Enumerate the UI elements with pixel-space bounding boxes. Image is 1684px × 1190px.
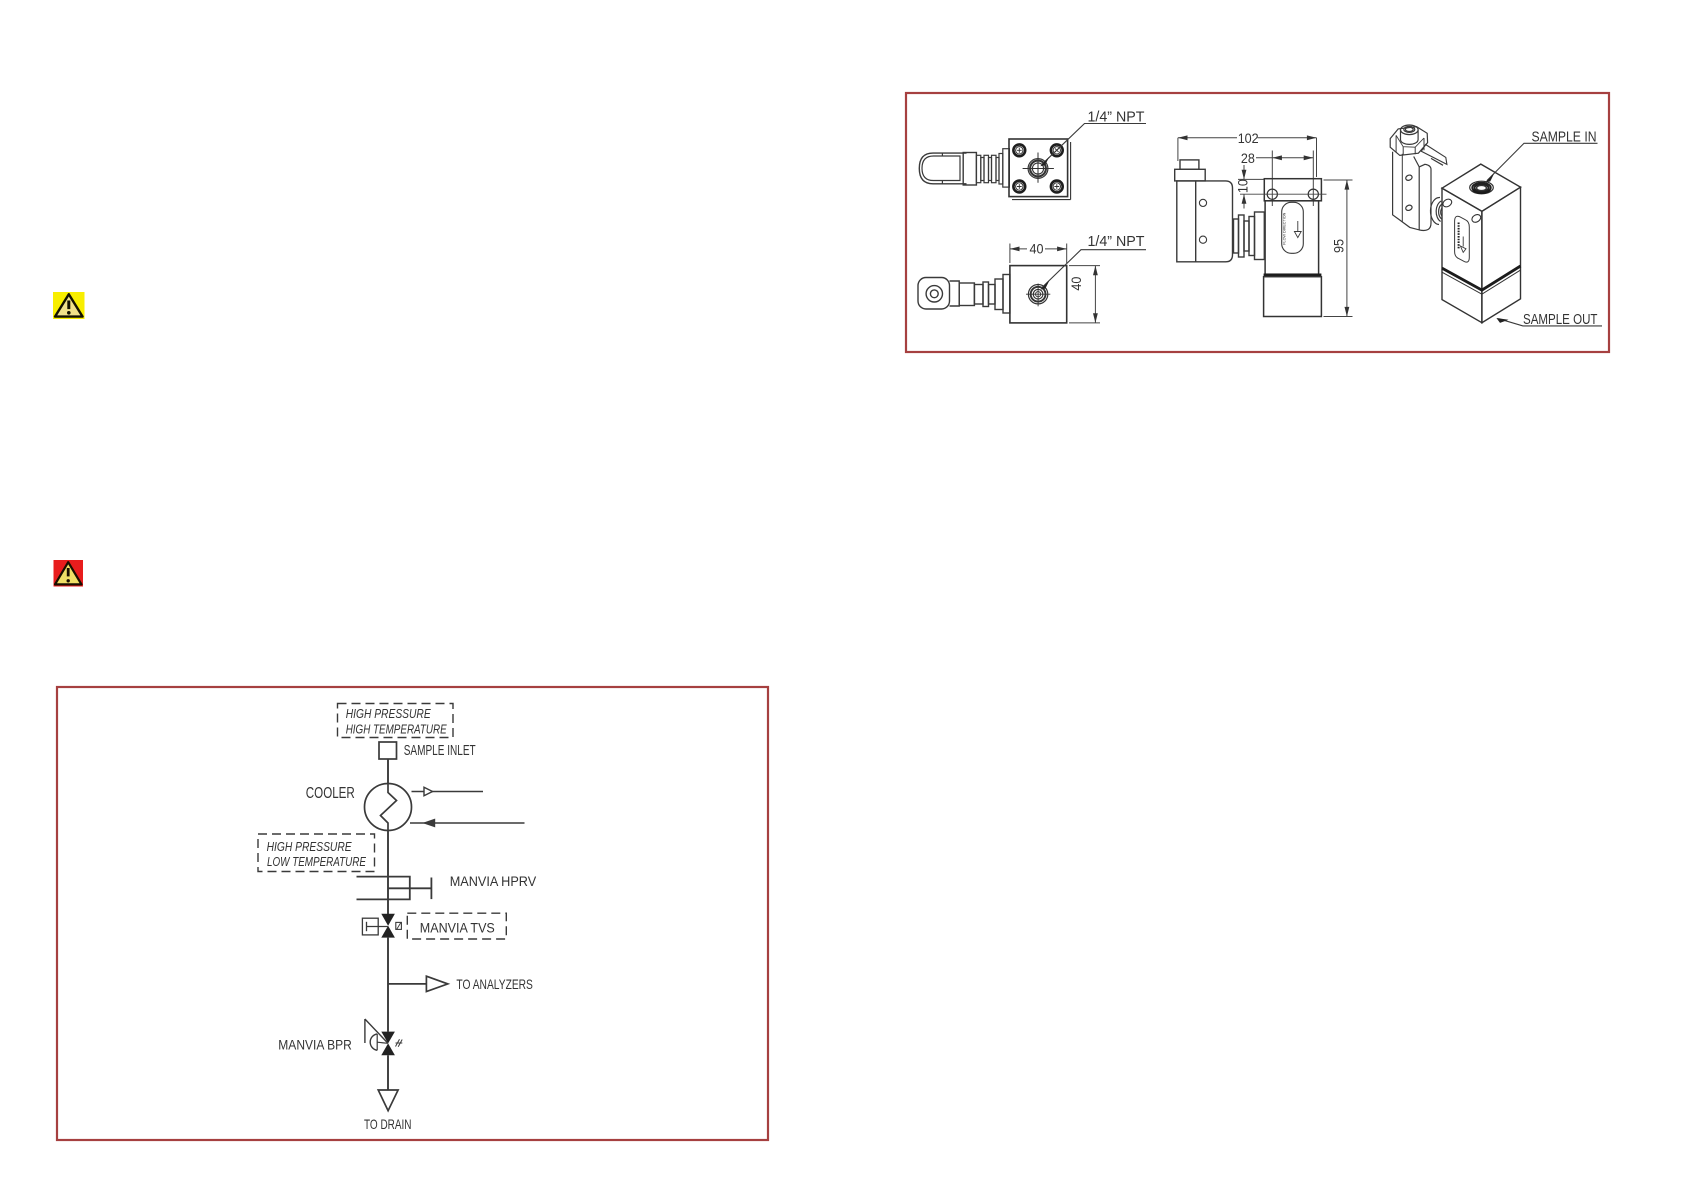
node: sample inlet port bbox=[379, 742, 476, 759]
flow direction label plate (C) bbox=[1282, 202, 1304, 253]
svg-text:95: 95 bbox=[1331, 239, 1346, 253]
branch to analyzers bbox=[388, 976, 448, 991]
wire: cooler to HPRV bbox=[387, 831, 389, 900]
svg-text:FLOW DIRECTION: FLOW DIRECTION bbox=[1282, 213, 1287, 245]
svg-text:1/4” NPT: 1/4” NPT bbox=[1088, 110, 1145, 126]
flange screws A bbox=[1013, 144, 1062, 192]
svg-text:COOLER: COOLER bbox=[306, 785, 355, 802]
center port A bbox=[1023, 153, 1054, 183]
iso front-face holes D bbox=[1441, 198, 1482, 224]
actuator side view (C) bbox=[1175, 160, 1265, 262]
handle grip B bbox=[918, 275, 1010, 314]
leader + label SAMPLE OUT bbox=[1496, 312, 1602, 328]
bottom flow-diagram panel border bbox=[57, 687, 768, 1140]
svg-text:10: 10 bbox=[1236, 179, 1251, 193]
svg-text:LOW TEMPERATURE: LOW TEMPERATURE bbox=[267, 854, 366, 869]
svg-text:HIGH PRESSURE: HIGH PRESSURE bbox=[267, 839, 352, 854]
iso label plate D bbox=[1455, 216, 1470, 262]
svg-text:SAMPLE INLET: SAMPLE INLET bbox=[404, 742, 476, 759]
node: high pressure low temperature label box bbox=[258, 834, 375, 872]
svg-text:40: 40 bbox=[1069, 277, 1084, 291]
valve MANVIA TVS (toggle valve, bowtie) bbox=[362, 914, 401, 938]
valve MANVIA HPRV (pressure reducing) bbox=[357, 877, 432, 900]
iso top port D bbox=[1470, 181, 1494, 194]
svg-text:MANVIA BPR: MANVIA BPR bbox=[278, 1037, 352, 1053]
warning icon W2 (red danger) bbox=[54, 560, 84, 587]
wire: TVS to branch bbox=[387, 938, 389, 1032]
body square B bbox=[1010, 266, 1067, 323]
leader + label 1/4 NPT (A) bbox=[1040, 110, 1146, 167]
drain arrow bbox=[378, 1090, 398, 1111]
warning icon W1 (yellow caution) bbox=[53, 292, 85, 319]
cooling water out arrow (top) bbox=[412, 787, 484, 795]
valve MANVIA BPR (back pressure regulator) bbox=[365, 1019, 402, 1055]
svg-text:HIGH TEMPERATURE: HIGH TEMPERATURE bbox=[346, 721, 447, 736]
svg-text:28: 28 bbox=[1241, 151, 1255, 166]
iso block D bbox=[1442, 164, 1521, 323]
center port B bbox=[1026, 284, 1050, 307]
dimension 40 vertical (B) bbox=[1069, 266, 1100, 323]
svg-text:TO DRAIN: TO DRAIN bbox=[364, 1116, 412, 1132]
node: MANVIA TVS label box bbox=[407, 913, 506, 939]
top drawing panel border bbox=[906, 93, 1609, 352]
svg-text:102: 102 bbox=[1238, 131, 1259, 146]
svg-text:1/4” NPT: 1/4” NPT bbox=[1088, 234, 1145, 250]
dimension 28 (C) bbox=[1256, 151, 1313, 207]
svg-text:SAMPLE IN: SAMPLE IN bbox=[1532, 130, 1597, 146]
wire: HPRV to TVS bbox=[387, 899, 389, 914]
svg-text:SAMPLE OUT: SAMPLE OUT bbox=[1523, 312, 1598, 328]
wire: inlet to cooler bbox=[387, 759, 389, 784]
dimension 95 (C) bbox=[1324, 180, 1353, 317]
svg-text:HIGH PRESSURE: HIGH PRESSURE bbox=[346, 706, 431, 721]
wire: BPR to drain bbox=[387, 1055, 389, 1090]
svg-text:40: 40 bbox=[1030, 241, 1044, 256]
svg-text:MANVIA HPRV: MANVIA HPRV bbox=[450, 873, 537, 889]
dimension 102 (C) bbox=[1178, 135, 1317, 177]
handle grip A bbox=[919, 149, 1009, 187]
node: high pressure high temperature label box bbox=[338, 704, 454, 738]
dimension 40 horizontal (B) bbox=[1010, 244, 1067, 264]
iso separation band D bbox=[1442, 266, 1521, 294]
svg-text:TO ANALYZERS: TO ANALYZERS bbox=[456, 976, 533, 992]
flange holes (C) bbox=[1240, 189, 1327, 199]
cooling water in arrow (bottom) bbox=[410, 820, 525, 827]
svg-text:MANVIA TVS: MANVIA TVS bbox=[420, 919, 495, 935]
leader + label 1/4 NPT (B) bbox=[1041, 234, 1147, 290]
dimension 10 (C) bbox=[1238, 165, 1264, 209]
cooler (heat exchanger) bbox=[365, 784, 412, 831]
leader + label SAMPLE IN bbox=[1486, 130, 1598, 183]
flange square A bbox=[1009, 139, 1071, 200]
valve body side view (C) bbox=[1264, 179, 1322, 317]
iso actuator D bbox=[1390, 125, 1447, 230]
